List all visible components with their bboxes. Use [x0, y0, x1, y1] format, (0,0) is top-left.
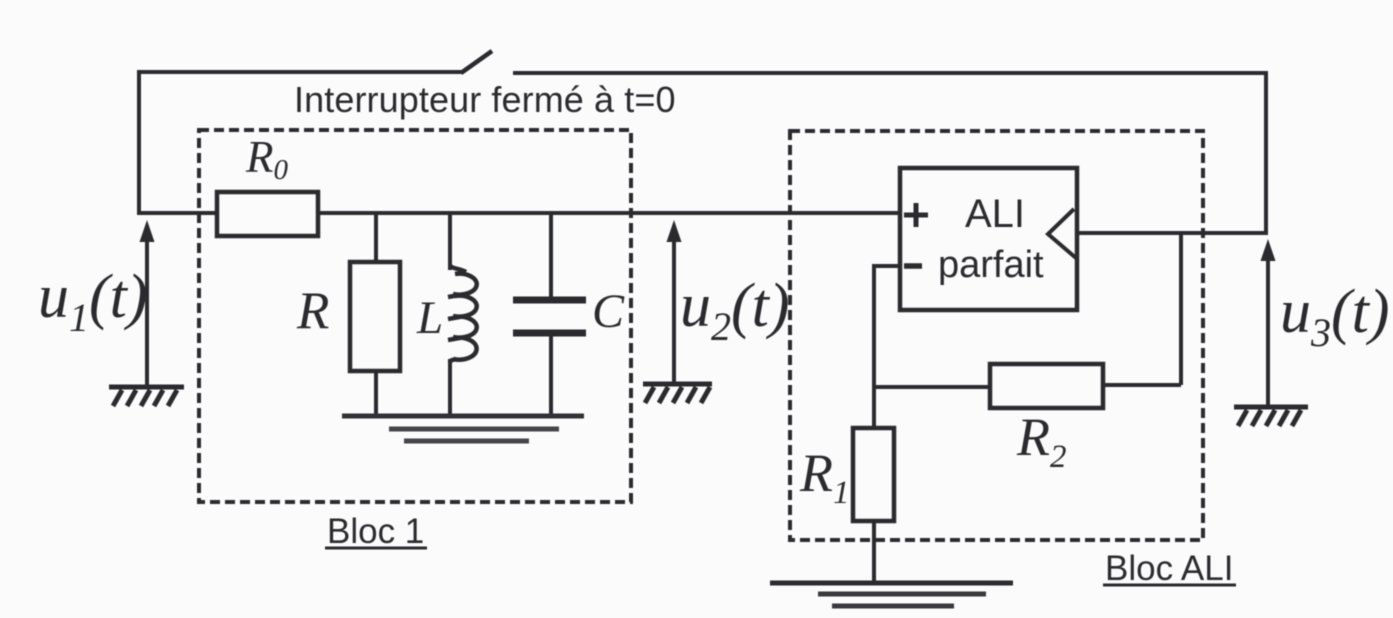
- resistor R: [350, 262, 400, 371]
- ground (u2 chassis): [643, 384, 712, 403]
- svg-text:parfait: parfait: [938, 244, 1044, 286]
- svg-text:u3(t): u3(t): [1280, 278, 1390, 355]
- svg-text:ALI: ALI: [965, 192, 1025, 236]
- wire right vertical down to output node: [1264, 71, 1268, 233]
- wire op-amp output to right node: [1077, 231, 1268, 235]
- op-amp minus input sign: [904, 263, 922, 269]
- switch SW lever arm: [461, 51, 492, 73]
- svg-text:L: L: [416, 292, 443, 344]
- wire L branch bottom: [448, 359, 452, 417]
- wire top left (to switch): [137, 70, 463, 74]
- wire R branch top: [374, 213, 378, 264]
- wire R1 bottom to ground: [872, 519, 876, 582]
- svg-text:Bloc 1: Bloc 1: [327, 512, 424, 551]
- wire C branch top: [549, 213, 553, 298]
- ground (Bloc 1 earth): [342, 416, 584, 441]
- inductor L: [448, 266, 477, 362]
- wire R branch bottom: [374, 369, 378, 417]
- svg-text:Bloc ALI: Bloc ALI: [1105, 549, 1233, 588]
- wire main horizontal node A (u1 through R0 to op-amp +): [139, 211, 900, 215]
- ground (R1 earth): [770, 583, 1013, 606]
- wire L branch top: [448, 213, 452, 270]
- svg-text:R0: R0: [245, 132, 289, 186]
- wire left vertical (u1 node to switch): [137, 72, 141, 215]
- node u3 arrow: [1266, 255, 1270, 405]
- wire R2 right to feedback: [1103, 383, 1181, 387]
- wire junction to R2 left: [874, 385, 990, 389]
- Bloc 1 dashed box: [199, 130, 631, 502]
- Bloc ALI dashed box: [790, 131, 1203, 540]
- op-amp output chevron: [1048, 209, 1076, 258]
- svg-text:u1(t): u1(t): [38, 263, 148, 340]
- resistor R1: [853, 428, 894, 521]
- wire top right (switch to u3 node): [513, 71, 1266, 75]
- op-amp plus input sign: [904, 203, 928, 227]
- wire C branch bottom: [549, 334, 553, 417]
- ground (u1 chassis): [109, 387, 184, 406]
- wire feedback vertical from output node: [1179, 233, 1183, 385]
- wire op-amp inverting input: [874, 266, 900, 430]
- node u1 arrow: [145, 236, 149, 386]
- svg-text:C: C: [592, 285, 625, 338]
- svg-text:R: R: [296, 282, 329, 340]
- capacitor C bottom plate: [513, 330, 586, 337]
- resistor R0: [217, 192, 318, 236]
- ground (u3 chassis): [1234, 407, 1308, 426]
- svg-text:Interrupteur fermé à t=0: Interrupteur fermé à t=0: [294, 79, 676, 120]
- svg-text:u2(t): u2(t): [680, 272, 790, 349]
- capacitor C top plate: [513, 297, 586, 304]
- node u2 arrow: [672, 236, 676, 383]
- svg-text:R2: R2: [1016, 407, 1067, 475]
- resistor R2: [990, 364, 1103, 408]
- svg-text:R1: R1: [799, 443, 850, 511]
- op-amp U1 (ALI parfait) box: [900, 168, 1077, 310]
